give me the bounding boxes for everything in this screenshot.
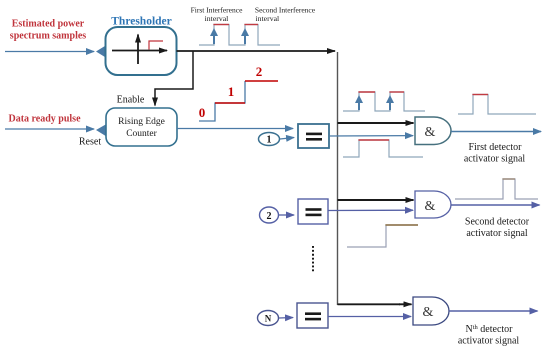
- svg-text:activator signal: activator signal: [464, 154, 526, 165]
- svg-text:Nth detector: Nth detector: [466, 324, 514, 336]
- svg-text:&: &: [423, 305, 434, 320]
- svg-text:Thresholder: Thresholder: [111, 16, 172, 28]
- svg-text:2: 2: [256, 64, 263, 79]
- svg-text:0: 0: [199, 105, 206, 120]
- svg-text:activator signal: activator signal: [466, 228, 528, 239]
- svg-text:&: &: [425, 125, 436, 140]
- svg-text:1: 1: [228, 84, 235, 99]
- svg-text:N: N: [265, 314, 272, 324]
- svg-text:1: 1: [267, 135, 272, 146]
- svg-text:Data ready pulse: Data ready pulse: [8, 114, 81, 125]
- svg-text:Counter: Counter: [126, 129, 157, 139]
- svg-text:interval: interval: [205, 14, 229, 23]
- svg-text:Estimated power: Estimated power: [12, 19, 85, 30]
- svg-text:Enable: Enable: [117, 95, 145, 106]
- svg-text:&: &: [425, 199, 436, 214]
- svg-text:Rising Edge: Rising Edge: [118, 117, 165, 127]
- svg-text:spectrum samples: spectrum samples: [10, 31, 86, 42]
- svg-text:2: 2: [267, 211, 272, 222]
- svg-text:Second detector: Second detector: [465, 217, 530, 228]
- svg-text:interval: interval: [256, 14, 280, 23]
- svg-text:First detector: First detector: [468, 142, 522, 153]
- svg-text:Reset: Reset: [79, 137, 101, 148]
- svg-text:activator signal: activator signal: [458, 336, 520, 347]
